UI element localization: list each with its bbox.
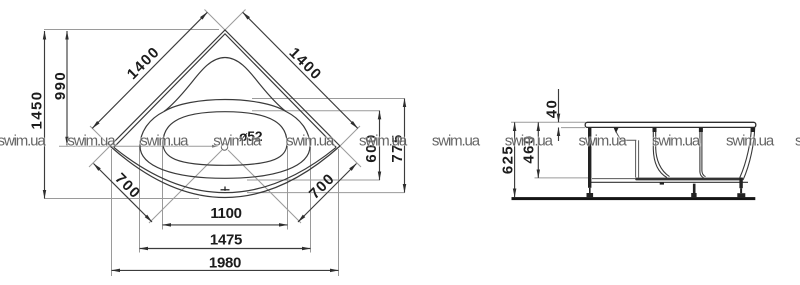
svg-text:swim.ua: swim.ua: [67, 132, 116, 149]
svg-text:swim.ua: swim.ua: [795, 132, 800, 149]
svg-text:swim.ua: swim.ua: [432, 132, 481, 149]
svg-text:1475: 1475: [210, 232, 242, 249]
svg-text:990: 990: [52, 71, 69, 100]
svg-text:swim.ua: swim.ua: [579, 132, 628, 149]
svg-text:swim.ua: swim.ua: [652, 132, 701, 149]
svg-text:swim.ua: swim.ua: [140, 132, 189, 149]
svg-text:swim.ua: swim.ua: [213, 132, 262, 149]
svg-text:swim.ua: swim.ua: [726, 132, 775, 149]
svg-text:1100: 1100: [210, 205, 241, 222]
svg-text:1980: 1980: [209, 255, 241, 272]
svg-text:swim.ua: swim.ua: [0, 132, 46, 149]
svg-text:swim.ua: swim.ua: [505, 132, 554, 149]
svg-text:swim.ua: swim.ua: [359, 132, 408, 149]
svg-text:40: 40: [544, 99, 561, 119]
svg-text:1450: 1450: [29, 91, 46, 130]
svg-text:swim.ua: swim.ua: [286, 132, 335, 149]
